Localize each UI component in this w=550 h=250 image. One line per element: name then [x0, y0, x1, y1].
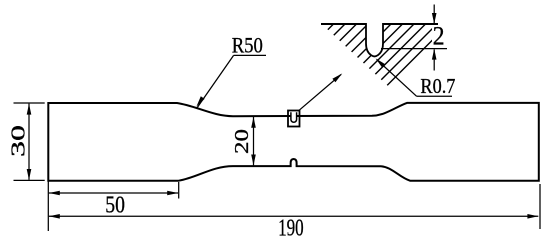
svg-text:R0.7: R0.7 — [420, 74, 455, 98]
svg-text:50: 50 — [105, 193, 125, 219]
svg-text:2: 2 — [433, 21, 445, 50]
svg-text:R50: R50 — [232, 33, 263, 58]
svg-text:20: 20 — [231, 129, 253, 154]
svg-text:30: 30 — [8, 125, 30, 157]
svg-text:190: 190 — [278, 215, 304, 242]
